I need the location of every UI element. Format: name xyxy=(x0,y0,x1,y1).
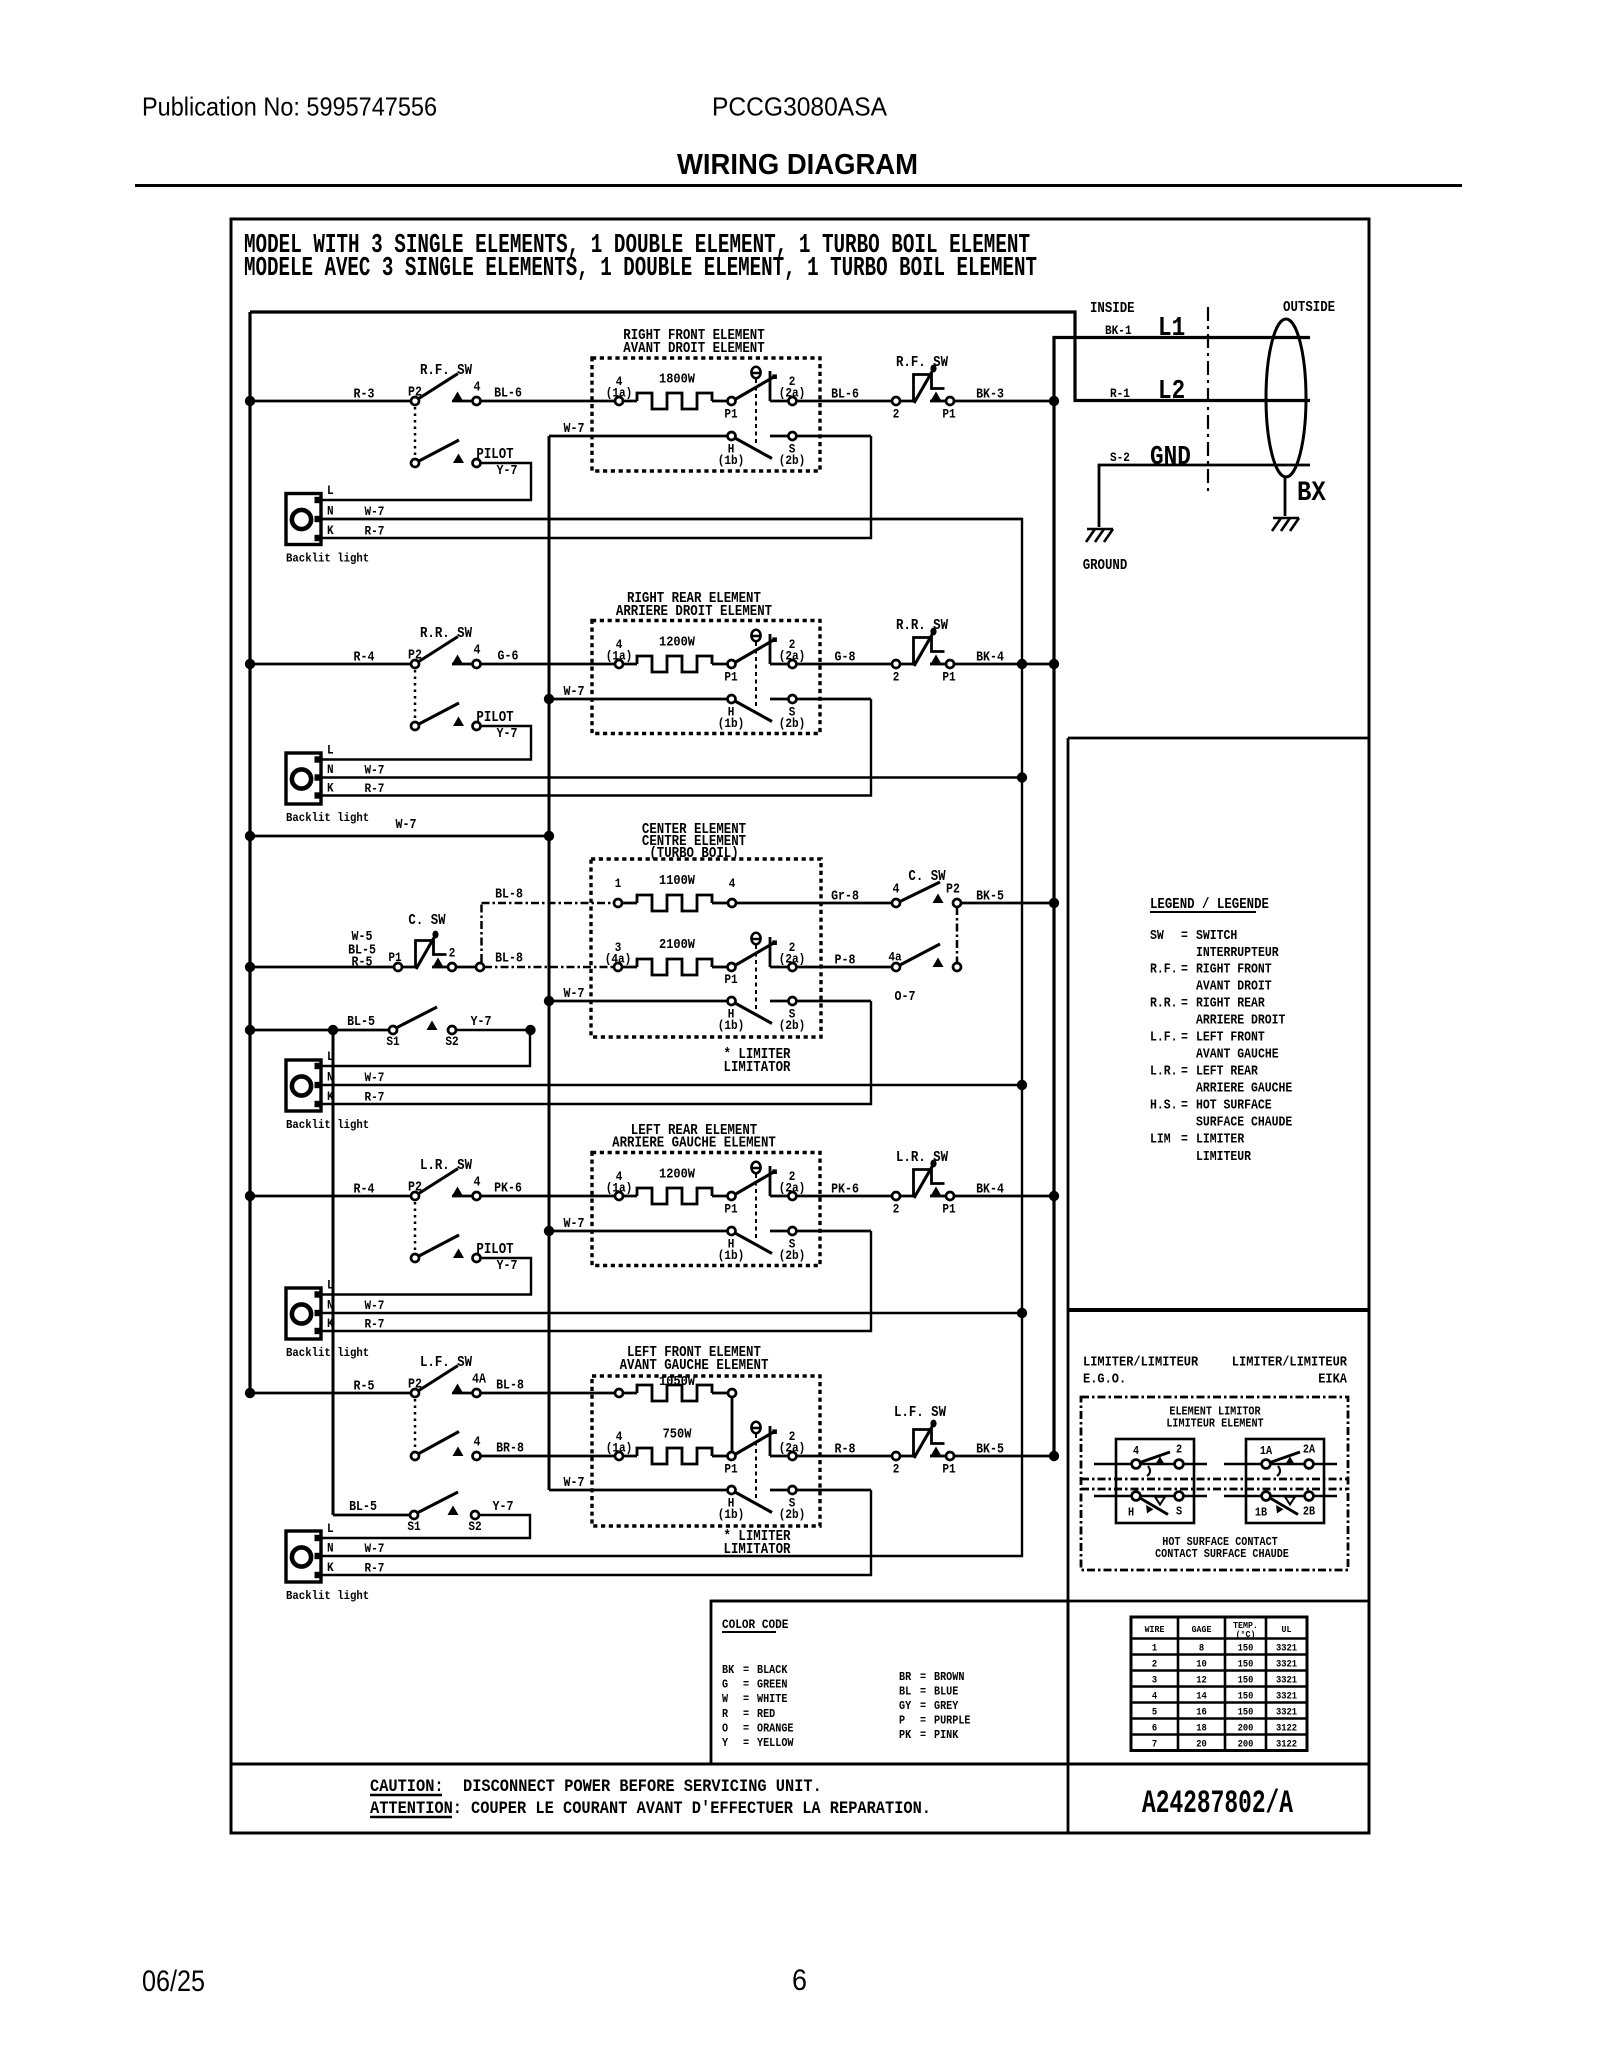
svg-text:750W: 750W xyxy=(663,1427,692,1443)
svg-text:W-7: W-7 xyxy=(564,422,585,437)
RR terminal P1 xyxy=(728,660,736,668)
LR pilot switch output terminal xyxy=(473,1254,481,1262)
wire C S1 row xyxy=(250,1029,389,1032)
switch RR thermal fixed contact triangle xyxy=(931,655,942,665)
svg-text:L: L xyxy=(327,1049,334,1064)
wire GND feed xyxy=(1099,465,1310,527)
switch C thermal left terminal xyxy=(394,963,402,971)
limiter top arm 4 xyxy=(1140,1452,1170,1463)
schematic bottom boundary line xyxy=(231,1763,1369,1766)
svg-text:R.F. SW: R.F. SW xyxy=(420,363,472,379)
svg-text:COLOR CODE: COLOR CODE xyxy=(722,1617,789,1632)
limiter contact box 1A-2A xyxy=(1246,1439,1324,1523)
svg-text:BK-3: BK-3 xyxy=(976,388,1004,403)
svg-text:BL-8: BL-8 xyxy=(495,888,523,903)
wire RF S out xyxy=(770,435,871,438)
svg-text:S1: S1 xyxy=(386,1034,400,1049)
switch RR thermal bimetal bracket xyxy=(914,638,945,665)
svg-text:P1: P1 xyxy=(942,1202,956,1217)
svg-text:GREY: GREY xyxy=(934,1699,959,1713)
svg-text:ARRIERE GAUCHE: ARRIERE GAUCHE xyxy=(1196,1082,1292,1097)
svg-text:R-5: R-5 xyxy=(354,1380,375,1395)
svg-text:K: K xyxy=(327,1316,334,1331)
svg-text:R: R xyxy=(722,1707,729,1721)
switch LF P2 fixed contact triangle xyxy=(452,1384,463,1394)
wire LR pilot to light L xyxy=(321,1258,531,1295)
RR P1 contact arm xyxy=(734,640,775,664)
svg-text:10: 10 xyxy=(1196,1659,1207,1671)
RR pilot dashed link xyxy=(414,670,417,720)
RR terminal 4 (1a) xyxy=(615,660,623,668)
svg-text:BROWN: BROWN xyxy=(934,1670,964,1684)
limiter hook xyxy=(1277,1466,1280,1476)
switch LR thermal right terminal xyxy=(946,1192,954,1200)
wire RR S return to light K xyxy=(321,699,871,796)
svg-text:S-2: S-2 xyxy=(1110,450,1130,465)
svg-text:2B: 2B xyxy=(1303,1505,1315,1519)
svg-text:3321: 3321 xyxy=(1276,1707,1297,1719)
limiter terminals bottom 1B 2B xyxy=(1262,1492,1271,1501)
wire LF lower row xyxy=(481,1455,619,1458)
svg-text:(2b): (2b) xyxy=(779,1018,806,1033)
svg-text:W-7: W-7 xyxy=(365,504,385,519)
svg-text:6: 6 xyxy=(792,1964,807,1997)
svg-text:PK-6: PK-6 xyxy=(494,1182,522,1197)
svg-text:L1: L1 xyxy=(1158,313,1185,343)
LF lower output terminal xyxy=(473,1452,481,1460)
C terminal 1 xyxy=(614,899,622,907)
RF P1 contact arm xyxy=(734,377,775,401)
svg-text:=: = xyxy=(1181,1099,1188,1114)
svg-text:L: L xyxy=(327,743,334,758)
C S1 arm xyxy=(396,1007,437,1028)
svg-text:PINK: PINK xyxy=(934,1728,959,1742)
junction dot RR N bus xyxy=(1017,772,1027,782)
svg-text:YELLOW: YELLOW xyxy=(757,1736,794,1750)
switch RF P2 pole terminal xyxy=(411,397,419,405)
svg-text:R-7: R-7 xyxy=(365,1317,385,1332)
svg-text:W-7: W-7 xyxy=(396,818,417,833)
svg-text:(1a): (1a) xyxy=(606,1441,633,1456)
LF element dashed enclosure xyxy=(592,1376,820,1526)
switch C thermal right terminal xyxy=(448,963,456,971)
svg-text:BL-5: BL-5 xyxy=(349,1500,377,1515)
RR thermostat bulb symbol xyxy=(751,630,761,641)
switch RF thermal right terminal xyxy=(946,397,954,405)
svg-text:SURFACE CHAUDE: SURFACE CHAUDE xyxy=(1196,1116,1292,1131)
switch LR thermal bimetal bracket xyxy=(914,1170,945,1197)
C top switch triangle xyxy=(933,894,944,904)
RF heating element resistor 1800W xyxy=(619,400,637,403)
wire C 1100W out xyxy=(736,902,892,905)
svg-text:150: 150 xyxy=(1238,1707,1254,1719)
svg-text:K: K xyxy=(327,523,334,538)
svg-text:4: 4 xyxy=(474,381,481,396)
switch RF P2 moving contact arm xyxy=(418,374,458,400)
junction dot RR right bus xyxy=(1049,659,1059,669)
limiter hook xyxy=(1147,1466,1150,1476)
svg-text:P1: P1 xyxy=(942,670,956,685)
RF moving contact bracket xyxy=(769,371,772,401)
svg-text:150: 150 xyxy=(1238,1691,1254,1703)
switch LR thermal wire stubs xyxy=(899,1195,916,1198)
RF terminal P1 xyxy=(728,397,736,405)
svg-text:CONTACT SURFACE CHAUDE: CONTACT SURFACE CHAUDE xyxy=(1155,1547,1289,1561)
LR backlit light body xyxy=(286,1288,321,1339)
svg-text:BL-8: BL-8 xyxy=(495,952,523,967)
svg-text:SW: SW xyxy=(1150,929,1165,944)
svg-text:W-7: W-7 xyxy=(564,1476,585,1491)
svg-text:EIKA: EIKA xyxy=(1318,1372,1347,1388)
wire RR element output row xyxy=(797,663,892,666)
RR moving contact bracket xyxy=(769,634,772,664)
C lower right triangle xyxy=(933,958,944,968)
C element moving contact bracket xyxy=(769,937,772,967)
junction dot BL-5 bus top xyxy=(328,1025,338,1035)
wire RF W-7 row xyxy=(549,435,731,438)
C element terminal H (1b) xyxy=(728,997,736,1005)
svg-text:R-1: R-1 xyxy=(1110,386,1130,401)
wire RR main row R-4 xyxy=(250,663,412,666)
svg-text:(2a): (2a) xyxy=(779,649,806,664)
junction dot C right bus xyxy=(1049,898,1059,908)
LF element P1 contact arm xyxy=(734,1432,775,1456)
svg-text:BR-8: BR-8 xyxy=(496,1442,524,1457)
LR actuator dashed link xyxy=(755,1174,757,1240)
svg-text:8: 8 xyxy=(1199,1643,1204,1655)
svg-text:R-3: R-3 xyxy=(354,388,375,403)
svg-text:LIMITER/LIMITEUR: LIMITER/LIMITEUR xyxy=(1083,1355,1199,1371)
wire RR to bus xyxy=(953,663,1054,666)
svg-text:BL-6: BL-6 xyxy=(494,387,522,402)
svg-text:4a: 4a xyxy=(888,950,902,965)
svg-text:(1b): (1b) xyxy=(718,1018,745,1033)
svg-text:2100W: 2100W xyxy=(659,937,696,953)
svg-text:(1b): (1b) xyxy=(718,1507,745,1522)
wire C S2 to light L xyxy=(321,1030,530,1066)
C top switch terminal P2 xyxy=(953,899,961,907)
junction dot W-7 bus xyxy=(544,831,554,841)
svg-text:2: 2 xyxy=(893,670,900,685)
RF pilot switch pole terminal xyxy=(411,459,419,467)
svg-text:PK: PK xyxy=(899,1728,912,1742)
svg-text:4: 4 xyxy=(474,1436,481,1451)
switch RR P2 output terminal xyxy=(473,660,481,668)
junction dot LR right bus xyxy=(1049,1191,1059,1201)
limiter bottom open triangle xyxy=(1155,1497,1165,1505)
svg-text:DISCONNECT POWER BEFORE SERVIC: DISCONNECT POWER BEFORE SERVICING UNIT. xyxy=(463,1777,822,1797)
svg-text:LIMITER/LIMITEUR: LIMITER/LIMITEUR xyxy=(1232,1355,1348,1371)
svg-text:2A: 2A xyxy=(1303,1443,1316,1457)
LF element H-S contact arm xyxy=(734,1492,772,1513)
svg-text:G: G xyxy=(722,1678,728,1692)
svg-text:7: 7 xyxy=(1152,1739,1157,1751)
RR pilot switch pole terminal xyxy=(411,722,419,730)
svg-text:BL: BL xyxy=(899,1685,911,1699)
svg-text:P1: P1 xyxy=(724,670,738,685)
svg-text:LIMITEUR ELEMENT: LIMITEUR ELEMENT xyxy=(1166,1417,1263,1431)
RR wire 2a out xyxy=(770,663,792,666)
RF pilot dashed link xyxy=(414,407,417,457)
wire W-7 center bus xyxy=(548,436,551,1490)
switch LR thermal fixed contact triangle xyxy=(931,1187,942,1197)
svg-text:4A: 4A xyxy=(472,1373,487,1388)
LF terminal 1050W right xyxy=(728,1389,736,1397)
svg-text:S2: S2 xyxy=(445,1034,458,1049)
svg-text:LIMITATOR: LIMITATOR xyxy=(724,1542,791,1558)
svg-text:GY: GY xyxy=(899,1699,912,1713)
ground symbol chassis xyxy=(1087,528,1113,531)
wire LF S out xyxy=(770,1489,871,1492)
svg-text:=: = xyxy=(1181,1065,1188,1080)
RF backlit light body xyxy=(286,494,321,545)
wire LF main row xyxy=(250,1392,412,1395)
svg-text:3122: 3122 xyxy=(1276,1739,1297,1751)
wire L2 top feed xyxy=(250,312,1310,401)
switch LR P2 output terminal xyxy=(473,1192,481,1200)
wire LF S return to light K xyxy=(321,1490,871,1575)
svg-text:LIMITEUR: LIMITEUR xyxy=(1196,1150,1252,1165)
wire C main row xyxy=(250,966,394,969)
svg-text:P1: P1 xyxy=(942,407,956,422)
wire LR W-7 row xyxy=(549,1230,731,1233)
switch RF thermal actuator arm xyxy=(914,370,933,403)
wire RF pilot to light L xyxy=(321,463,531,500)
svg-text:LEFT FRONT: LEFT FRONT xyxy=(1196,1031,1265,1046)
svg-text:(1b): (1b) xyxy=(718,1248,745,1263)
RR terminal 2 (2a) xyxy=(788,660,796,668)
svg-text:R-7: R-7 xyxy=(365,781,385,796)
svg-text:W-7: W-7 xyxy=(564,1217,585,1232)
LR terminal S (2b) xyxy=(788,1227,796,1235)
svg-text:LIMITER: LIMITER xyxy=(1196,1133,1245,1148)
RR actuator dashed link xyxy=(755,642,757,708)
LR P1 contact arm xyxy=(734,1172,775,1196)
switch LF thermal fixed contact triangle xyxy=(931,1447,942,1457)
switch LR P2 moving contact arm xyxy=(418,1169,458,1195)
svg-text:H.S.: H.S. xyxy=(1150,1099,1178,1114)
svg-text:(4a): (4a) xyxy=(605,952,632,967)
wire RF main row R-3 xyxy=(250,400,412,403)
svg-text:3: 3 xyxy=(1152,1675,1157,1687)
LF pilot dashed link xyxy=(414,1399,417,1450)
svg-text:PK-6: PK-6 xyxy=(831,1183,859,1198)
RR terminal S (2b) xyxy=(788,695,796,703)
svg-text:N: N xyxy=(327,1070,334,1085)
C terminal P2 lower xyxy=(953,963,961,971)
wire LF BK-5 to bus xyxy=(953,1455,1054,1458)
inside/outside dash-dot boundary xyxy=(1207,307,1209,492)
svg-text:P: P xyxy=(899,1714,905,1728)
junction dot C W-7 bus xyxy=(544,996,554,1006)
svg-text:150: 150 xyxy=(1238,1643,1254,1655)
wire LF S2 to light L xyxy=(321,1515,530,1538)
svg-text:ARRIERE DROIT ELEMENT: ARRIERE DROIT ELEMENT xyxy=(616,604,772,620)
wire LR to bus xyxy=(953,1195,1054,1198)
svg-text:=: = xyxy=(920,1670,926,1684)
svg-text:G-6: G-6 xyxy=(498,650,519,665)
LF wire 2a out xyxy=(770,1455,792,1458)
svg-text:Backlit light: Backlit light xyxy=(286,811,369,825)
svg-text:O: O xyxy=(722,1721,728,1735)
svg-text:R.R. SW: R.R. SW xyxy=(896,618,948,634)
svg-text:(TURBO BOIL): (TURBO BOIL) xyxy=(649,846,738,862)
limiter terminals top 4 2 xyxy=(1132,1460,1141,1469)
svg-text:Backlit light: Backlit light xyxy=(286,1118,369,1132)
limiter bottom arrow xyxy=(1146,1505,1154,1513)
svg-text:AVANT DROIT ELEMENT: AVANT DROIT ELEMENT xyxy=(623,341,765,357)
svg-text:BK-4: BK-4 xyxy=(976,1183,1004,1198)
limiter dashed split line lower xyxy=(1081,1488,1348,1491)
switch RR P2 pole terminal xyxy=(411,660,419,668)
svg-text:S2: S2 xyxy=(468,1519,481,1534)
C lower right switch arm xyxy=(900,944,940,965)
limiter section bottom line xyxy=(711,1600,1369,1603)
wire LR S out xyxy=(770,1230,871,1233)
LR terminal H (1b) xyxy=(728,1227,736,1235)
LR thermostat bulb symbol xyxy=(751,1162,761,1173)
C backlit light lamp circle xyxy=(292,1076,311,1095)
switch C thermal actuator arm xyxy=(416,936,435,969)
wire BX drop xyxy=(1284,477,1287,516)
svg-text:AVANT DROIT: AVANT DROIT xyxy=(1196,980,1272,995)
limiter bottom arm H xyxy=(1140,1498,1168,1515)
LR moving contact bracket xyxy=(769,1166,772,1196)
C 1100W heating element resistor xyxy=(619,902,637,905)
wire C W-7 row xyxy=(549,1000,731,1003)
C element actuator dashed link xyxy=(755,945,757,1011)
switch LF thermal wire stubs xyxy=(899,1455,916,1458)
svg-text:=: = xyxy=(1181,929,1188,944)
C terminal 4a right xyxy=(892,963,900,971)
wire LF R-8 out xyxy=(796,1455,892,1458)
svg-text:BX: BX xyxy=(1297,478,1326,509)
wire BL-8 dash-dot upper xyxy=(482,902,617,905)
svg-text:GREEN: GREEN xyxy=(757,1678,787,1692)
switch RF thermal fixed contact triangle xyxy=(931,392,942,402)
svg-text:L: L xyxy=(327,483,334,498)
svg-text:Y: Y xyxy=(722,1736,729,1750)
LF element terminal P1 xyxy=(728,1452,736,1460)
switch C thermal wire stubs xyxy=(401,966,418,969)
C S2 terminal xyxy=(448,1026,456,1034)
svg-text:18: 18 xyxy=(1196,1723,1207,1735)
cable entry ellipse xyxy=(1266,319,1306,477)
LF element thermostat bulb symbol xyxy=(751,1422,761,1433)
svg-text:AVANT GAUCHE: AVANT GAUCHE xyxy=(1196,1048,1279,1063)
svg-text:S: S xyxy=(1176,1505,1182,1519)
junction dot LR N bus xyxy=(1017,1308,1027,1318)
wire C BK-5 to bus xyxy=(961,902,1054,905)
svg-text:MODELE AVEC 3 SINGLE ELEMENTS,: MODELE AVEC 3 SINGLE ELEMENTS, 1 DOUBLE … xyxy=(244,254,1037,284)
RF element dashed enclosure xyxy=(592,358,820,471)
svg-text:Publication No: 5995747556: Publication No: 5995747556 xyxy=(142,92,437,122)
svg-text:06/25: 06/25 xyxy=(142,1965,205,1998)
switch LF P2 moving contact arm xyxy=(418,1366,458,1392)
svg-text:(2a): (2a) xyxy=(779,386,806,401)
svg-text:BL-8: BL-8 xyxy=(496,1379,524,1394)
switch RR thermal actuator arm xyxy=(914,633,933,666)
switch C thermal bimetal bracket xyxy=(416,941,447,968)
switch LF thermal bimetal bracket xyxy=(914,1430,945,1457)
svg-text:L.R. SW: L.R. SW xyxy=(896,1150,948,1166)
C top switch arm xyxy=(900,882,940,902)
limiter top arm 1A xyxy=(1270,1452,1300,1463)
svg-text:R-4: R-4 xyxy=(354,1183,375,1198)
wire RR W-7 row xyxy=(549,698,731,701)
outer border frame xyxy=(231,219,1369,1833)
C element thermostat bulb symbol xyxy=(751,933,761,944)
svg-text:Y-7: Y-7 xyxy=(493,1500,514,1515)
svg-text:150: 150 xyxy=(1238,1659,1254,1671)
svg-text:BK-4: BK-4 xyxy=(976,651,1004,666)
svg-text:LEFT REAR: LEFT REAR xyxy=(1196,1065,1259,1080)
svg-text:RED: RED xyxy=(757,1707,775,1721)
RF pilot switch contact arm xyxy=(418,440,459,462)
svg-text:SWITCH: SWITCH xyxy=(1196,929,1237,944)
wire LR S return to light K xyxy=(321,1231,871,1331)
svg-text:5: 5 xyxy=(1152,1707,1157,1719)
svg-text:=: = xyxy=(1181,1133,1188,1148)
svg-text:HOT SURFACE: HOT SURFACE xyxy=(1196,1099,1272,1114)
svg-text:2: 2 xyxy=(1176,1443,1182,1457)
svg-text:H: H xyxy=(1128,1506,1134,1520)
svg-text:K: K xyxy=(327,781,334,796)
limiter terminals top 1A 2A xyxy=(1262,1460,1271,1469)
svg-text:(°C): (°C) xyxy=(1236,1629,1256,1640)
RF thermostat bulb symbol xyxy=(751,367,761,378)
svg-text:W-7: W-7 xyxy=(365,1298,385,1313)
svg-text:(1a): (1a) xyxy=(606,1181,633,1196)
wire RF S return to light K xyxy=(321,436,871,538)
LF lower contact triangle xyxy=(453,1447,464,1457)
RR pilot switch output terminal xyxy=(473,722,481,730)
RR backlit light body xyxy=(286,753,321,804)
junction dot LR W-7 bus xyxy=(544,1226,554,1236)
LF element terminal H (1b) xyxy=(728,1486,736,1494)
svg-text:14: 14 xyxy=(1196,1691,1207,1703)
LR pilot switch contact arm xyxy=(418,1235,459,1257)
svg-text:1A: 1A xyxy=(1260,1444,1273,1458)
junction dot LR left bus xyxy=(245,1191,255,1201)
svg-text:Backlit light: Backlit light xyxy=(286,1589,369,1603)
limiter wires 4-2 xyxy=(1094,1463,1207,1466)
switch LF P2 output terminal xyxy=(473,1389,481,1397)
wire LF S1 row xyxy=(333,1514,410,1517)
svg-text:=: = xyxy=(743,1692,749,1706)
svg-text:W-7: W-7 xyxy=(365,1070,385,1085)
wire W-7 right return bus xyxy=(321,519,1022,1556)
junction dot LF left xyxy=(245,1388,255,1398)
svg-text:R-4: R-4 xyxy=(354,651,375,666)
wire gauge table xyxy=(1131,1617,1307,1751)
svg-text:=: = xyxy=(743,1707,749,1721)
limiter bottom arm 1B xyxy=(1270,1498,1298,1515)
limiter contact box 4-2 xyxy=(1116,1439,1194,1523)
svg-text:1: 1 xyxy=(615,876,622,891)
switch LF thermal left terminal xyxy=(892,1452,900,1460)
svg-text:=: = xyxy=(743,1678,749,1692)
svg-text:1050W: 1050W xyxy=(659,1374,696,1390)
LF element terminal S (2b) xyxy=(788,1486,796,1494)
LF terminal 2 (2a) xyxy=(788,1452,796,1460)
svg-text:(2a): (2a) xyxy=(779,952,806,967)
RR element dashed enclosure xyxy=(592,621,820,734)
wire RR light N to bus xyxy=(321,776,1022,778)
svg-text:Y-7: Y-7 xyxy=(471,1015,492,1030)
svg-text:WIRING DIAGRAM: WIRING DIAGRAM xyxy=(677,149,918,181)
svg-text:2: 2 xyxy=(1152,1659,1157,1671)
